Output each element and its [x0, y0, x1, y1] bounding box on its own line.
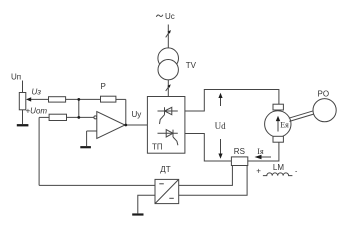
- svg-text:ДТ: ДТ: [160, 165, 170, 174]
- svg-text:ТП: ТП: [152, 143, 163, 152]
- svg-text:Uз: Uз: [32, 88, 42, 97]
- svg-text:RS: RS: [234, 147, 245, 156]
- svg-text:+Uom: +Uom: [26, 107, 48, 116]
- svg-text:Eя: Eя: [280, 121, 289, 130]
- svg-text:Uy: Uy: [132, 110, 142, 119]
- svg-text:Iя: Iя: [257, 147, 264, 156]
- svg-text:P: P: [101, 82, 106, 91]
- svg-text:Ud: Ud: [215, 121, 226, 131]
- svg-text:+: +: [256, 166, 261, 175]
- svg-text:Uп: Uп: [11, 73, 21, 82]
- svg-text:Uc: Uc: [165, 12, 175, 21]
- svg-text:PO: PO: [318, 90, 330, 99]
- svg-text:LM: LM: [273, 163, 284, 172]
- svg-text:TV: TV: [186, 61, 197, 70]
